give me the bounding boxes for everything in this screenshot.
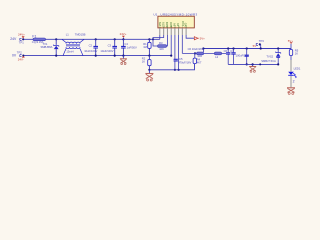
resistor R4 (vertical): [193, 52, 202, 64]
TVS diode TVS2: [261, 47, 281, 65]
wire pin1 to top rail: [159, 35, 161, 39]
svg-text:LED1: LED1: [294, 66, 301, 70]
net flag 24V- (red, below input terminal P2): [18, 56, 25, 62]
wire pin8 to +5V flag: [186, 35, 194, 38]
node junction R1 top: [148, 38, 150, 40]
resistor R2 (vertical, 0V to secondary bus): [142, 56, 151, 71]
wire output mid: [182, 52, 226, 54]
svg-text:470uF/16V: 470uF/16V: [178, 61, 191, 65]
ground GND1 (below C4): [120, 56, 127, 65]
svg-text:TP3: TP3: [259, 39, 264, 43]
node junction on top rail at TVS1: [55, 38, 57, 40]
ground GND4 (signal ground below LED): [287, 88, 295, 95]
wire bottom input rail: [24, 55, 171, 57]
ground GND2 (signal ground below R2): [145, 70, 153, 81]
op IC U1 DC-DC module: [153, 13, 197, 28]
svg-text:1uF/50V: 1uF/50V: [127, 45, 137, 49]
svg-text:U1: U1: [153, 13, 157, 17]
svg-text:C3: C3: [108, 43, 112, 47]
net flag 24V+ (red, at C4 top): [120, 32, 127, 39]
capacitor C2: [84, 38, 98, 57]
svg-text:24V+: 24V+: [120, 32, 127, 36]
capacitor C3: [100, 38, 117, 57]
capacitor C5: [174, 57, 192, 71]
svg-text:10uF/100V: 10uF/100V: [100, 49, 113, 53]
wire output top rail: [203, 48, 291, 50]
terminal P1 (24V input pin): [10, 37, 24, 44]
node junction trim drop: [152, 38, 154, 40]
wire top input rail: [24, 38, 160, 40]
svg-text:2: 2: [293, 80, 295, 84]
inductor L2 (inline): [214, 52, 221, 59]
svg-text:10R: 10R: [197, 54, 202, 58]
svg-text:C6 10uF/16V: C6 10uF/16V: [188, 47, 204, 51]
wire secondary bus (left): [149, 64, 194, 70]
fuse F1: [32, 34, 46, 44]
wire R3 to pin3: [166, 35, 169, 46]
TVS diode TV1 SMBJ58A: [41, 39, 59, 56]
svg-text:1K: 1K: [142, 59, 145, 63]
svg-text:1K: 1K: [295, 52, 298, 56]
U1 pin numbers: [159, 26, 187, 29]
wire pin7 to output mid wire: [181, 35, 183, 53]
net flag 5V+ (red arrow at pin8): [194, 37, 205, 41]
svg-text:TP2: TP2: [17, 50, 22, 54]
svg-text:C6: C6: [224, 49, 228, 53]
svg-text:TMD15B: TMD15B: [75, 32, 86, 36]
wire trim drop to R3: [153, 39, 158, 46]
U1 pin name texts (green, inside box): [159, 21, 188, 27]
LED LED1: [288, 60, 301, 87]
svg-text:15mH: 15mH: [66, 50, 73, 54]
svg-text:C5: C5: [179, 57, 183, 61]
svg-text:SMBJ7.5CA: SMBJ7.5CA: [261, 59, 276, 63]
ground GND3 (below right bus): [249, 63, 256, 72]
svg-text:5V: 5V: [253, 44, 257, 48]
capacitor C6 (vertical): [224, 47, 231, 64]
wire pin5 down to C5: [174, 35, 176, 59]
svg-text:C4: C4: [124, 42, 128, 46]
svg-text:10K: 10K: [159, 47, 164, 51]
wire pin6 to bus: [178, 35, 180, 70]
svg-text:SMBJ58A: SMBJ58A: [41, 45, 53, 49]
svg-text:24V-: 24V-: [18, 58, 24, 62]
net flag LED+ (red, above R5): [288, 39, 294, 49]
svg-text:24V+: 24V+: [18, 33, 25, 37]
ferrite bead FB1 (inline): [197, 52, 204, 58]
U1 pin stubs (gray): [160, 28, 186, 35]
core lines: [66, 45, 80, 46]
net flag 5V+ (red, above output rail): [253, 39, 265, 49]
wire pin2 to trim node: [153, 35, 164, 40]
svg-text:24V: 24V: [10, 37, 17, 41]
common-mode choke L1: [62, 32, 86, 55]
svg-text:L1: L1: [66, 32, 69, 36]
svg-text:C7: C7: [230, 49, 234, 53]
svg-text:L2: L2: [215, 55, 218, 59]
terminal P2 (0V input pin): [12, 50, 25, 57]
capacitor C7 (vertical): [230, 47, 249, 64]
resistor R3 (horizontal trim resistor): [158, 35, 168, 51]
wire pin4 to bottom rail: [170, 35, 172, 56]
top winding: [62, 39, 66, 42]
bottom winding: [63, 49, 66, 56]
svg-text:C2: C2: [89, 43, 93, 47]
net flag 24V+ (red, above input terminal P1): [18, 33, 25, 39]
resistor R5 (vertical, LED series): [289, 48, 298, 60]
wire secondary bus (right): [228, 63, 278, 65]
svg-text:5V+: 5V+: [200, 37, 206, 41]
capacitor C4: [121, 38, 137, 57]
svg-text:4K7: 4K7: [197, 61, 202, 65]
capacitor C8 (vertical): [245, 47, 249, 65]
resistor R1 (vertical, rail to 0V): [143, 39, 151, 56]
svg-text:TVS2: TVS2: [266, 55, 273, 59]
svg-text:TP1: TP1: [19, 40, 24, 44]
